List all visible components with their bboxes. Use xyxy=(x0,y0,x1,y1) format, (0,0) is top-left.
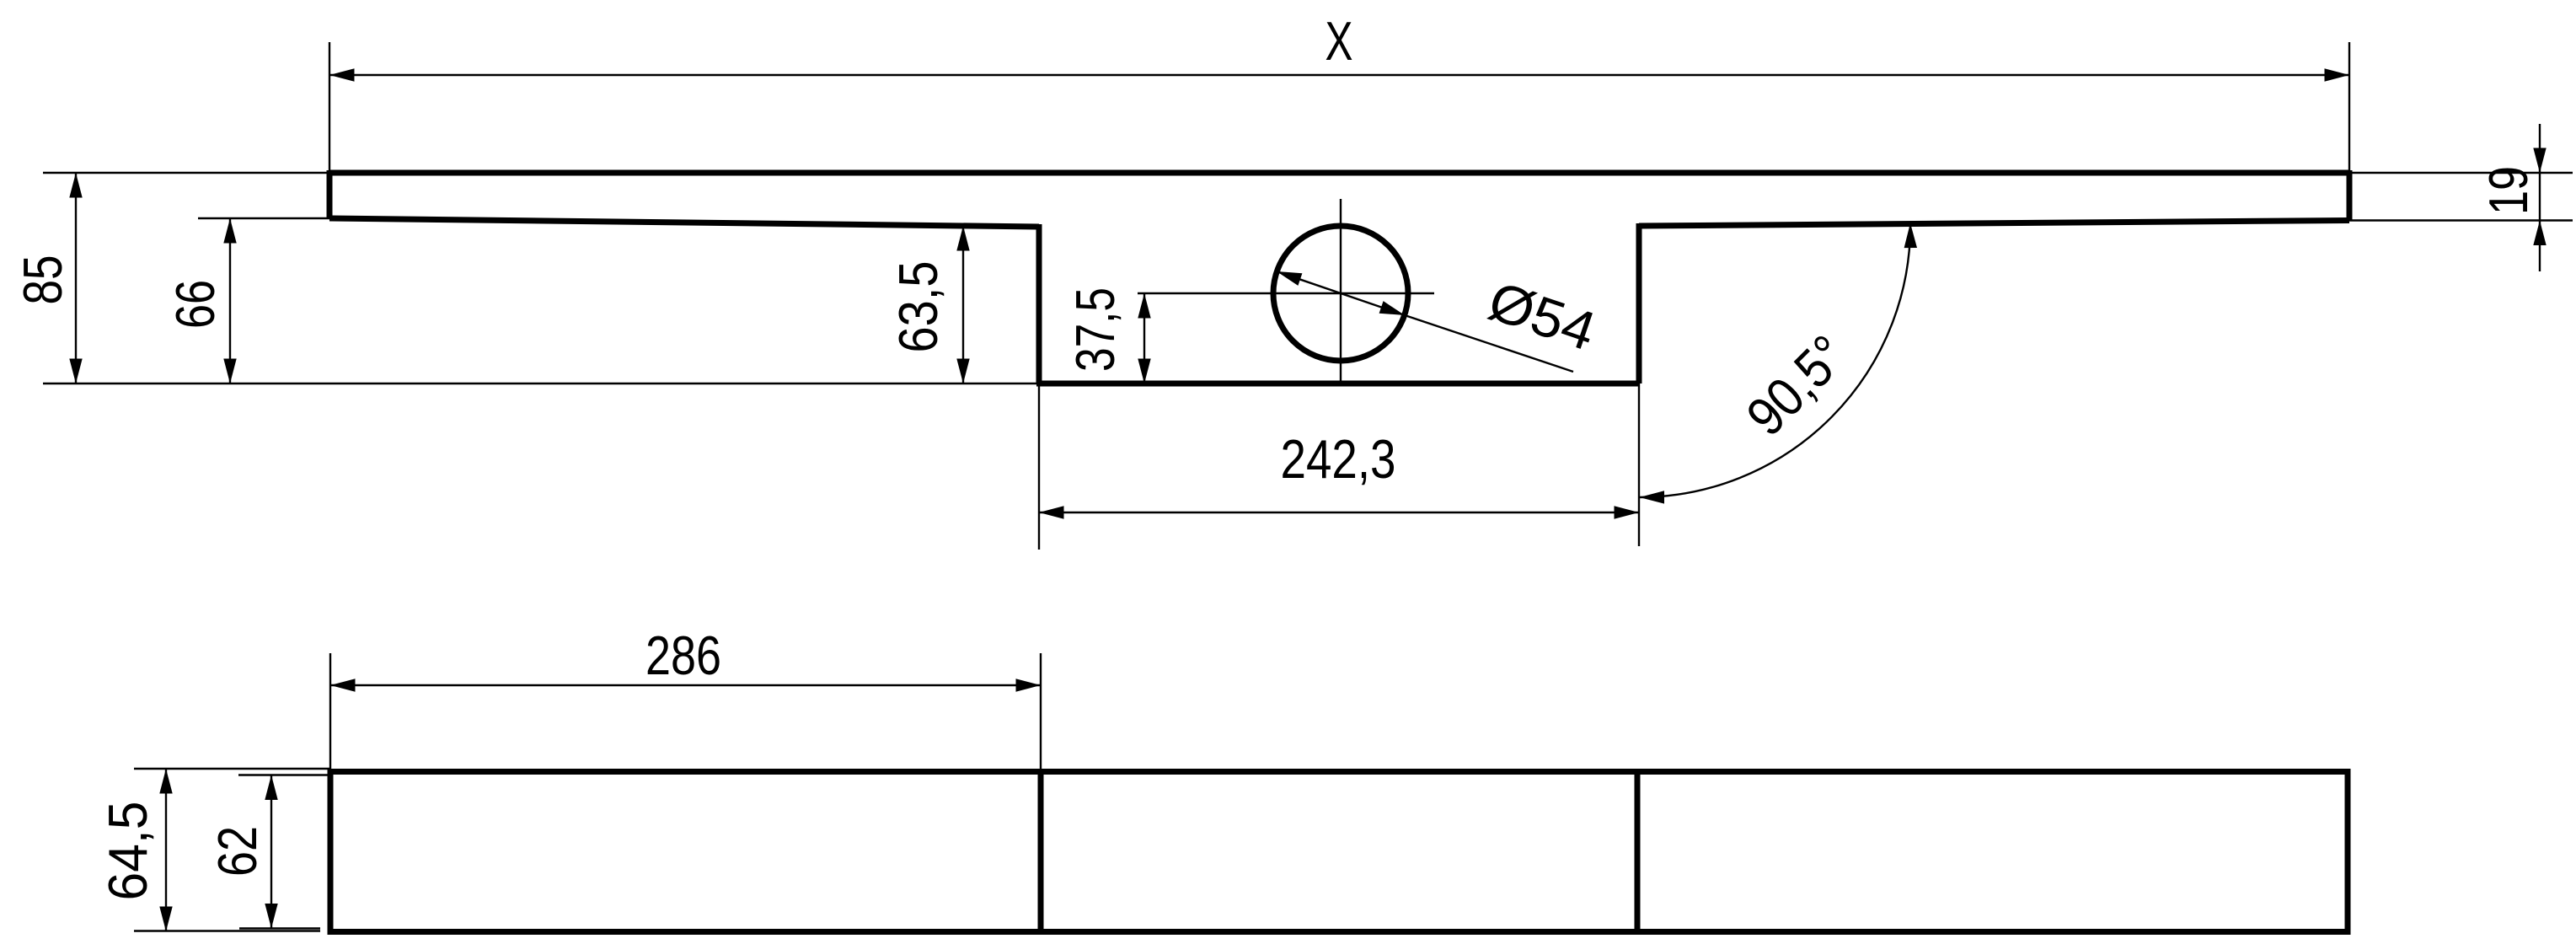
dimension 19: lower arrow line xyxy=(2539,221,2541,272)
dimension 19: dimension line middle segment xyxy=(2539,173,2541,221)
svg-text:X: X xyxy=(1325,10,1353,72)
side view: part bottom edge right (tapered) xyxy=(1639,221,2349,227)
dimension 85: dimension line with arrows xyxy=(75,173,77,383)
dimension 85: top extension line xyxy=(43,172,329,174)
dimension 66: dimension line with arrows xyxy=(229,218,231,383)
svg-text:63,5: 63,5 xyxy=(887,261,949,353)
side view: part bottom edge left (tapered) xyxy=(329,218,1039,227)
dimension X: dimension line with arrows xyxy=(329,74,2349,76)
side view: notch right edge xyxy=(1636,223,1642,383)
hole circle Ø54 xyxy=(1273,226,1408,361)
dimension 19: top extension line xyxy=(2349,172,2573,174)
dimension 19: label xyxy=(2477,166,2539,215)
bottom view: divider line right xyxy=(1635,772,1641,932)
dimension 19: upper arrow line xyxy=(2539,124,2541,173)
svg-text:37,5: 37,5 xyxy=(1064,287,1126,372)
dimension 62: bottom extension line xyxy=(239,927,320,929)
dimension 37,5: label xyxy=(1064,287,1126,372)
side view: notch left edge xyxy=(1036,224,1042,383)
dimension 64,5: dimension line with arrows xyxy=(165,769,167,931)
bottom view: outline rectangle xyxy=(330,772,2348,932)
dimension 64,5: label xyxy=(97,802,158,901)
dimension X: left extension line xyxy=(329,42,330,173)
dimension 64,5: bottom extension line xyxy=(134,930,320,931)
dimension 85: label xyxy=(12,255,73,305)
dimension 90,5deg: label xyxy=(1735,324,1859,448)
dimension 286: right extension line xyxy=(1040,653,1042,771)
dimension 66: top extension line xyxy=(198,217,329,219)
dimension 37,5: dimension line with arrows xyxy=(1143,293,1145,383)
dimension Ø54: label xyxy=(1481,270,1604,362)
side view: part top edge xyxy=(329,170,2349,176)
side view: part left end edge xyxy=(327,170,333,218)
dimension 242,3: dimension line with arrows xyxy=(1039,512,1639,513)
dimension 242,3: right extension line xyxy=(1638,383,1640,546)
svg-text:19: 19 xyxy=(2477,166,2539,215)
bottom view: divider line left xyxy=(1038,772,1044,932)
dimension 66: label xyxy=(164,280,226,329)
dimension 63,5: label xyxy=(887,261,949,353)
dimension 286: left extension line xyxy=(329,653,331,771)
hole vertical centerline xyxy=(1340,199,1342,385)
svg-text:85: 85 xyxy=(12,255,73,305)
dimension 62: top extension line xyxy=(238,774,330,775)
dimension 90,5deg: angle arc with arrows xyxy=(1640,223,1911,497)
svg-text:64,5: 64,5 xyxy=(97,802,158,901)
dimension 19: bottom extension line xyxy=(2349,219,2573,221)
dimension 62: dimension line with arrows xyxy=(270,775,272,929)
dimension Ø54: leader line xyxy=(1405,315,1573,372)
dimension 63,5: top extension line xyxy=(923,225,1039,227)
dimension 63,5: dimension line with arrows xyxy=(962,226,964,383)
dimension 64,5: top extension line xyxy=(134,768,330,770)
svg-text:66: 66 xyxy=(164,280,226,329)
svg-text:62: 62 xyxy=(206,826,268,877)
dimension Ø54: diameter line with arrows xyxy=(1277,271,1405,315)
dimension 242,3: left extension line xyxy=(1038,383,1040,550)
dimension 286: dimension line with arrows xyxy=(330,684,1041,686)
dimension 85: bottom extension line xyxy=(43,383,1039,384)
svg-text:242,3: 242,3 xyxy=(1281,428,1396,490)
side view: notch bottom edge xyxy=(1036,381,1639,387)
hole horizontal centerline xyxy=(1138,292,1434,294)
dimension 62: label xyxy=(206,826,268,877)
svg-text:286: 286 xyxy=(645,625,721,686)
dimension X: right extension line xyxy=(2348,42,2350,173)
side view: part right end edge xyxy=(2347,170,2353,221)
